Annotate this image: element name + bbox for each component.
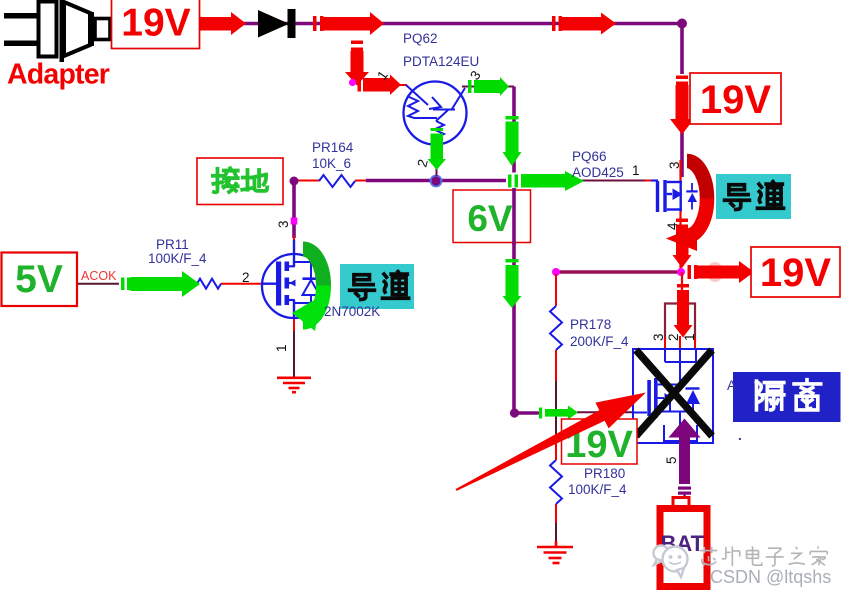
- svg-text:Adapter: Adapter: [7, 59, 110, 91]
- svg-text:2N7002K: 2N7002K: [324, 304, 380, 319]
- svg-text:1: 1: [274, 344, 289, 352]
- svg-text:ACOK: ACOK: [81, 269, 117, 283]
- svg-text:10K_6: 10K_6: [312, 156, 351, 171]
- svg-text:100K/F_4: 100K/F_4: [148, 251, 207, 266]
- svg-text:1: 1: [632, 163, 640, 178]
- svg-text:3: 3: [667, 161, 682, 169]
- svg-text:PDTA124EU: PDTA124EU: [403, 54, 479, 69]
- svg-text:1: 1: [682, 333, 697, 341]
- svg-text:PR11: PR11: [156, 237, 189, 252]
- svg-text:.: .: [738, 428, 742, 443]
- svg-text:PQ62: PQ62: [403, 31, 438, 46]
- svg-text:5V: 5V: [15, 258, 63, 301]
- svg-text:2: 2: [242, 270, 250, 285]
- svg-text:PQ66: PQ66: [572, 149, 607, 164]
- svg-text:PR178: PR178: [570, 317, 611, 332]
- svg-text:4: 4: [665, 222, 680, 230]
- svg-text:19V: 19V: [760, 251, 831, 295]
- svg-text:2: 2: [666, 333, 681, 341]
- svg-text:PR164: PR164: [312, 140, 354, 155]
- svg-text:PR180: PR180: [584, 466, 625, 481]
- svg-text:100K/F_4: 100K/F_4: [568, 482, 627, 497]
- svg-text:A: A: [727, 378, 736, 393]
- svg-text:19V: 19V: [121, 2, 190, 45]
- svg-text:CSDN @ltqshs: CSDN @ltqshs: [710, 567, 831, 587]
- svg-text:200K/F_4: 200K/F_4: [570, 334, 629, 349]
- svg-text:5: 5: [664, 456, 679, 464]
- svg-text:3: 3: [651, 333, 666, 341]
- svg-text:3: 3: [276, 220, 291, 228]
- svg-text:19V: 19V: [700, 78, 771, 122]
- svg-text:AOD425: AOD425: [572, 165, 624, 180]
- svg-text:6V: 6V: [467, 198, 513, 239]
